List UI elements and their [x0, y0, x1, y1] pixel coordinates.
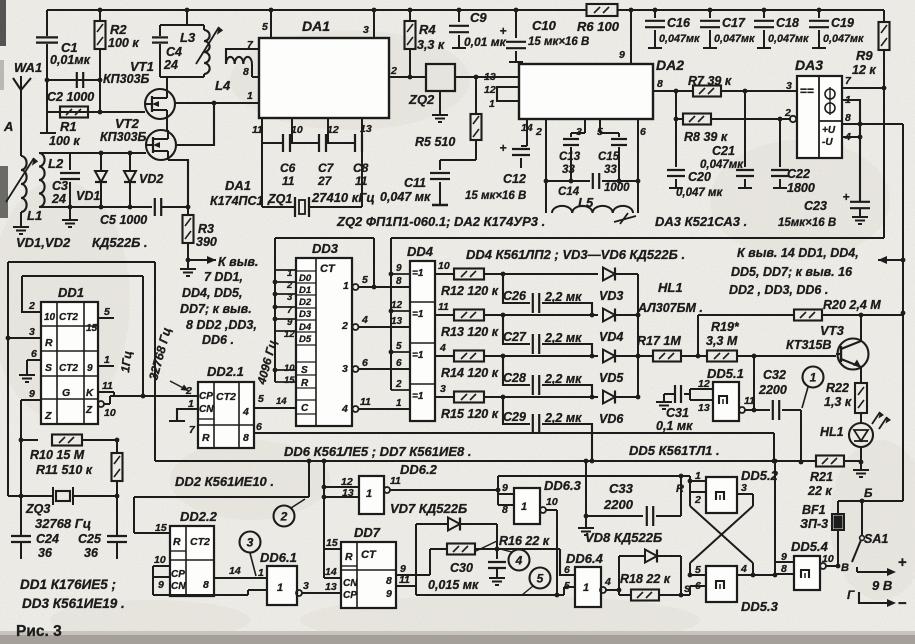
pin 1 DA3: [842, 94, 862, 201]
label R6: [577, 19, 620, 34]
svg-text:3: 3: [303, 580, 309, 592]
svg-text:8: 8: [502, 504, 508, 516]
svg-text:6: 6: [564, 564, 570, 576]
capacitor C20: [667, 117, 685, 188]
svg-text:S: S: [301, 365, 308, 376]
svg-text:1: 1: [277, 582, 283, 594]
label C14: [558, 182, 630, 198]
svg-text:DD1 К176ИЕ5 ;: DD1 К176ИЕ5 ;: [20, 577, 116, 592]
DD5.2 glyph: [716, 492, 724, 500]
label DD6.4: [566, 551, 604, 566]
svg-text:DA1: DA1: [225, 178, 251, 193]
svg-text:DD6 .: DD6 .: [202, 333, 234, 347]
svg-text:10: 10: [284, 363, 295, 374]
wire R18 row: [617, 588, 622, 593]
svg-text:DD2 К561ИЕ10 .: DD2 К561ИЕ10 .: [175, 474, 274, 489]
svg-text:2: 2: [185, 385, 192, 397]
label DD5 type: [629, 443, 720, 458]
svg-text:1: 1: [695, 470, 701, 482]
svg-text:DD6.1: DD6.1: [260, 550, 297, 565]
wire rail to B node: [862, 500, 903, 502]
pin 5 DD5.3: [690, 564, 706, 576]
svg-text:=1: =1: [412, 350, 424, 361]
wire R16 to DD6.4: [497, 549, 575, 575]
label R16: [476, 534, 550, 551]
label L4: [215, 78, 231, 93]
pin 12 DA1: [327, 118, 339, 143]
svg-text:6: 6: [640, 126, 646, 138]
svg-text:DD6 К561ЛЕ5 ; DD7 К561ИЕ: DD6 К561ЛЕ5 ; DD7 К561ИЕ8 .: [284, 444, 471, 459]
label VD1 VD2 types: [16, 235, 148, 250]
pin 12 DA2: [484, 84, 519, 101]
svg-text:10: 10: [104, 407, 116, 419]
svg-text:Z: Z: [85, 405, 93, 416]
capacitor C24: [11, 536, 31, 559]
pin 9 DD7: [396, 563, 430, 575]
label ZQ1 freq: [311, 190, 375, 205]
svg-text:VD1,VD2: VD1,VD2: [16, 235, 71, 250]
label L2: [48, 156, 64, 171]
wire set down: [689, 476, 691, 481]
svg-text:CN: CN: [199, 404, 214, 415]
svg-text:+: +: [499, 141, 506, 155]
svg-text:DD4, DD5,: DD4, DD5,: [182, 286, 242, 300]
svg-text:HL1: HL1: [658, 280, 683, 295]
svg-text:DD1: DD1: [58, 285, 84, 300]
resistor R19: [707, 351, 836, 362]
label C16: [659, 16, 700, 45]
counter DD1 box: [41, 302, 98, 424]
pin 15 DD7: [324, 537, 341, 549]
label HL1: [820, 425, 844, 439]
wire VT2 drain up: [177, 103, 214, 145]
svg-text:6: 6: [256, 421, 262, 433]
svg-text:3: 3: [786, 80, 792, 92]
wire reference bus y238: [391, 88, 884, 238]
svg-text:15: 15: [326, 537, 338, 549]
label VD2: [139, 172, 163, 186]
pin 14 DA2: [521, 122, 533, 134]
svg-text:В: В: [841, 562, 849, 574]
svg-text:27: 27: [317, 174, 333, 188]
pin 9 DA2: [619, 8, 633, 64]
svg-text:2: 2: [395, 379, 402, 390]
svg-text:DD3 К561ИЕ19 .: DD3 К561ИЕ19 .: [22, 596, 125, 611]
wire VT3 emitter: [860, 367, 862, 382]
latch cross wires: [688, 481, 756, 577]
capacitor C1: [36, 37, 58, 42]
svg-text:0,047мк: 0,047мк: [768, 33, 809, 45]
wire vert to R20: [697, 315, 699, 356]
label R15: [441, 407, 499, 421]
svg-text:C28: C28: [503, 371, 526, 385]
DD5.3 glyph: [716, 581, 724, 589]
diode VD2: [124, 151, 136, 210]
svg-text:11: 11: [252, 124, 263, 136]
svg-text:3: 3: [363, 24, 369, 36]
wire x324 to DD7: [0, 0, 1, 1]
resistor R6: [587, 4, 618, 16]
pin 5 DD3: [353, 274, 411, 290]
svg-text:11: 11: [438, 301, 449, 313]
svg-text:R: R: [202, 432, 210, 444]
ground under R3: [180, 260, 196, 276]
DA3 +U -U: [822, 125, 836, 148]
diode VD5: [603, 350, 640, 363]
svg-text:R1: R1: [60, 119, 77, 134]
label R node: [676, 483, 684, 495]
nor DD6.2 box: [359, 476, 384, 514]
svg-text:8: 8: [845, 112, 851, 124]
svg-text:3,3 М: 3,3 М: [706, 334, 738, 348]
pin 1 DA1: [247, 90, 253, 102]
svg-text:C11: C11: [404, 176, 426, 190]
diode VD3: [603, 268, 638, 281]
pin 10 DD4: [435, 260, 454, 274]
resistor R10: [21, 435, 117, 446]
svg-text:3: 3: [342, 363, 348, 375]
capacitor C6: [262, 134, 292, 207]
pin 13 DA1: [360, 118, 372, 143]
wire R2 top: [98, 8, 103, 21]
label R3: [196, 222, 217, 249]
svg-text:11: 11: [102, 380, 113, 392]
resistor R8: [676, 114, 791, 125]
label VT3: [786, 323, 845, 352]
wire y497: [134, 497, 309, 533]
svg-text:1: 1: [845, 94, 851, 106]
wire to DD5.3 S: [690, 586, 706, 595]
svg-text:1000: 1000: [604, 182, 630, 194]
wire row4 to diode: [503, 396, 598, 398]
svg-text:C20: C20: [688, 170, 711, 184]
label R5: [415, 135, 455, 149]
svg-text:-U: -U: [822, 137, 833, 148]
label VD5: [599, 371, 624, 385]
antenna WA1: [13, 76, 31, 156]
resistor R2: [95, 21, 106, 49]
svg-text:27410 кГц: 27410 кГц: [311, 190, 375, 205]
label VD3: [599, 289, 623, 303]
svg-text:3: 3: [741, 482, 747, 494]
label L1: [27, 208, 42, 223]
ground under L1: [13, 222, 29, 234]
label C5: [100, 213, 147, 227]
svg-text:2: 2: [341, 320, 348, 332]
led HL1: [849, 413, 873, 447]
pin 6 DA2b: [638, 119, 646, 213]
svg-text:C4: C4: [166, 45, 182, 59]
pin 1 DD1: [98, 354, 114, 366]
svg-text:C22: C22: [787, 167, 810, 181]
label DD4 row titles: [466, 247, 685, 262]
svg-text:4: 4: [361, 314, 368, 326]
svg-text:11: 11: [282, 174, 295, 188]
svg-text:==: ==: [800, 84, 814, 98]
svg-text:0,015 мк: 0,015 мк: [428, 578, 479, 592]
svg-text:0,047мк: 0,047мк: [823, 33, 864, 45]
label C30: [428, 561, 479, 592]
wire right rail: [901, 124, 906, 501]
svg-text:DD4 К561ЛП2 ; VD3—VD6 КД522: DD4 К561ЛП2 ; VD3—VD6 КД522Б .: [466, 247, 685, 262]
note K vyv 7: [180, 255, 258, 347]
svg-text:8: 8: [243, 432, 249, 444]
label C2: [47, 90, 94, 104]
label C25: [78, 532, 102, 560]
svg-text:VD5: VD5: [599, 371, 624, 385]
coil L5: [552, 206, 633, 213]
svg-text:7 DD1,: 7 DD1,: [204, 270, 243, 284]
wire tank2 bottom: [39, 206, 152, 208]
label C20: [676, 170, 723, 199]
svg-text:DD2.1: DD2.1: [207, 364, 244, 379]
DD7 inner: [343, 549, 392, 601]
pin 4 DD5.3: [737, 563, 753, 575]
node B: [860, 486, 873, 503]
DD2.1 inner: [199, 391, 236, 444]
DD3 input pins: [276, 268, 295, 407]
capacitor C14: [593, 173, 599, 189]
label C10: [528, 18, 589, 48]
svg-text:Г: Г: [847, 588, 855, 602]
wire DD6.4 pin5: [564, 587, 575, 595]
resistor R13: [454, 310, 505, 321]
svg-text:2: 2: [28, 300, 35, 312]
svg-text:G: G: [62, 387, 70, 399]
label C4: [163, 45, 182, 72]
label DD1 type: [20, 577, 116, 592]
numbered node 4: [500, 549, 530, 571]
label DD2 type: [175, 474, 274, 489]
crystal ZQ1: [262, 197, 362, 217]
label DD3: [312, 241, 339, 256]
sounder BF1: [832, 514, 844, 530]
note K vyv 14: [729, 246, 859, 297]
svg-text:D2: D2: [299, 297, 312, 308]
svg-text:1: 1: [583, 582, 589, 594]
resistor R7: [674, 86, 797, 97]
svg-text:3: 3: [440, 383, 446, 395]
resistor R14: [454, 351, 505, 362]
svg-text:2: 2: [390, 65, 397, 77]
pin 6 DD6.4: [564, 564, 570, 576]
svg-text:КД522Б .: КД522Б .: [92, 235, 148, 250]
pin 5 DA1: [262, 8, 273, 38]
svg-text:14: 14: [276, 396, 287, 407]
label C19: [823, 16, 864, 45]
svg-text:9 В: 9 В: [872, 578, 892, 593]
wire top supply rail: [47, 9, 884, 11]
label 32768Hz rotated: [146, 326, 189, 391]
svg-text:C26: C26: [503, 289, 527, 303]
counter DD3 box: [296, 258, 352, 426]
svg-text:Z: Z: [44, 410, 52, 422]
svg-text:10: 10: [438, 260, 450, 272]
svg-text:C18: C18: [776, 16, 799, 30]
label R21: [807, 470, 833, 498]
svg-text:9: 9: [158, 579, 164, 591]
wire VT2 source: [168, 160, 188, 207]
pin 2 DD6.1: [248, 589, 267, 591]
svg-text:5: 5: [537, 572, 544, 586]
wire inner vertical x143: [142, 276, 144, 396]
svg-text:8: 8: [203, 579, 209, 591]
resistor R3: [183, 207, 194, 262]
svg-text:WA1: WA1: [14, 60, 42, 75]
label C31: [656, 406, 693, 433]
svg-text:R6 100: R6 100: [577, 19, 620, 34]
pin 4 DA3: [842, 131, 860, 143]
svg-text:12: 12: [391, 300, 403, 311]
svg-text:D5: D5: [299, 334, 312, 345]
svg-text:100 к: 100 к: [108, 36, 139, 50]
svg-text:0,047 мк: 0,047 мк: [380, 190, 431, 204]
pin 10 DD1: [98, 401, 116, 419]
svg-text:R22: R22: [826, 381, 849, 395]
transistor VT2: [146, 130, 176, 160]
label C22: [787, 167, 815, 195]
svg-text:0,047мк: 0,047мк: [700, 159, 744, 171]
svg-text:С30: С30: [450, 561, 473, 575]
pin 13 DD6.2: [324, 487, 359, 499]
wire DD5.3 out: [753, 573, 777, 578]
svg-text:R2: R2: [110, 22, 127, 37]
svg-text:6: 6: [362, 357, 368, 369]
svg-text:DD7; к выв.: DD7; к выв.: [180, 302, 252, 316]
pin 1 DD2.1: [169, 398, 198, 421]
wire x309: [308, 461, 310, 497]
pin 11 DD6.2: [384, 475, 498, 493]
battery plus terminal: [857, 554, 907, 576]
svg-text:4: 4: [740, 563, 747, 575]
DD2.2 inner: [171, 536, 210, 592]
svg-text:1: 1: [104, 354, 110, 366]
pin 8 DD2.1: [243, 432, 249, 444]
label VD1: [76, 189, 100, 203]
coil L4: [226, 49, 259, 77]
svg-text:КП303Б: КП303Б: [100, 130, 147, 144]
svg-text:C13: C13: [559, 151, 581, 163]
svg-text:R: R: [676, 483, 684, 495]
svg-text:13: 13: [325, 581, 337, 593]
svg-text:36: 36: [84, 546, 99, 560]
svg-text:VD7 КД522Б: VD7 КД522Б: [390, 501, 467, 516]
svg-text:L4: L4: [215, 78, 231, 93]
svg-text:2,2 мк: 2,2 мк: [544, 372, 582, 386]
DD3 output cells: [341, 280, 349, 415]
capacitor C8: [328, 134, 362, 207]
svg-text:DD6.2: DD6.2: [400, 462, 438, 477]
svg-text:1: 1: [489, 98, 495, 110]
svg-text:R: R: [301, 378, 309, 389]
svg-text:13: 13: [484, 71, 496, 83]
svg-text:10: 10: [154, 554, 166, 566]
label R20: [823, 298, 881, 312]
label R22: [824, 381, 852, 409]
label VD7: [390, 501, 467, 516]
pin 11 DA1: [252, 118, 263, 143]
capacitor C27: [503, 315, 594, 358]
label R18: [620, 572, 671, 586]
counter DD7 box: [341, 542, 396, 608]
label R8: [684, 130, 728, 144]
svg-text:DA3 К521СА3 .: DA3 К521СА3 .: [655, 214, 747, 229]
svg-text:9: 9: [87, 363, 93, 374]
counter DD2.1 box: [198, 382, 254, 448]
label G node: [847, 588, 855, 602]
label DD2.2: [180, 509, 218, 524]
capacitor C15: [600, 133, 627, 181]
svg-text:9: 9: [386, 588, 392, 600]
svg-text:+: +: [499, 24, 506, 38]
capacitor C25: [107, 496, 127, 559]
label C24: [36, 532, 59, 560]
svg-text:R16 22 к: R16 22 к: [499, 534, 550, 548]
wire row3 to diode: [503, 355, 598, 357]
svg-text:C2 1000: C2 1000: [47, 90, 94, 104]
svg-text:DD4: DD4: [407, 244, 434, 259]
pin 8 DA3: [842, 112, 903, 124]
capacitor C21: [736, 91, 754, 188]
svg-text:+: +: [898, 554, 907, 571]
svg-text:C16: C16: [667, 16, 691, 30]
capacitor C4: [152, 25, 168, 77]
wire pin11 to DD2.1: [104, 392, 143, 404]
svg-text:1: 1: [366, 488, 372, 500]
svg-text:4: 4: [604, 576, 611, 588]
nand DD6.3 box: [514, 488, 540, 524]
capacitor C11: [430, 160, 450, 205]
label DD2.1: [207, 364, 244, 379]
wire row1 to diode: [503, 273, 598, 275]
pin 13 DA2: [484, 71, 496, 83]
svg-text:1: 1: [521, 501, 527, 513]
svg-text:DA3: DA3: [795, 57, 823, 73]
pin 10 DD5.4: [820, 553, 838, 569]
transistor VT3: [836, 339, 869, 370]
svg-text:1Гц: 1Гц: [118, 350, 135, 374]
label 1Hz rotated: [118, 350, 135, 374]
svg-text:3,3 к: 3,3 к: [417, 38, 445, 52]
wire x324 vertical: [322, 461, 327, 578]
label C21: [700, 144, 744, 171]
svg-text:BF1: BF1: [802, 503, 826, 517]
DD3 D cells: [296, 263, 336, 345]
svg-text:C19: C19: [831, 16, 854, 30]
svg-text:12: 12: [484, 84, 496, 96]
wire left rail: [7, 262, 9, 496]
svg-text:15: 15: [284, 375, 295, 386]
capacitor C13: [563, 133, 585, 181]
svg-text:22 к: 22 к: [807, 484, 832, 498]
filter ZQ2: [426, 64, 455, 91]
label IC types row1: [336, 214, 545, 229]
label SA1: [864, 532, 888, 546]
svg-text:R: R: [173, 536, 181, 548]
DD4 gate symbols: [412, 268, 424, 402]
pin 2 DA2b: [535, 119, 546, 213]
svg-text:8: 8: [781, 563, 787, 575]
pin 6 DD2.1 wire: [254, 421, 774, 433]
svg-text:C12: C12: [503, 172, 526, 186]
wire VT1-VT2 link: [166, 119, 168, 130]
svg-text:9: 9: [619, 49, 625, 61]
wire DD3 top loop: [275, 238, 374, 287]
label DA1: [302, 18, 330, 34]
svg-text:12: 12: [327, 124, 339, 136]
svg-text:ZQ1: ZQ1: [267, 192, 292, 206]
svg-text:R9: R9: [856, 48, 873, 63]
